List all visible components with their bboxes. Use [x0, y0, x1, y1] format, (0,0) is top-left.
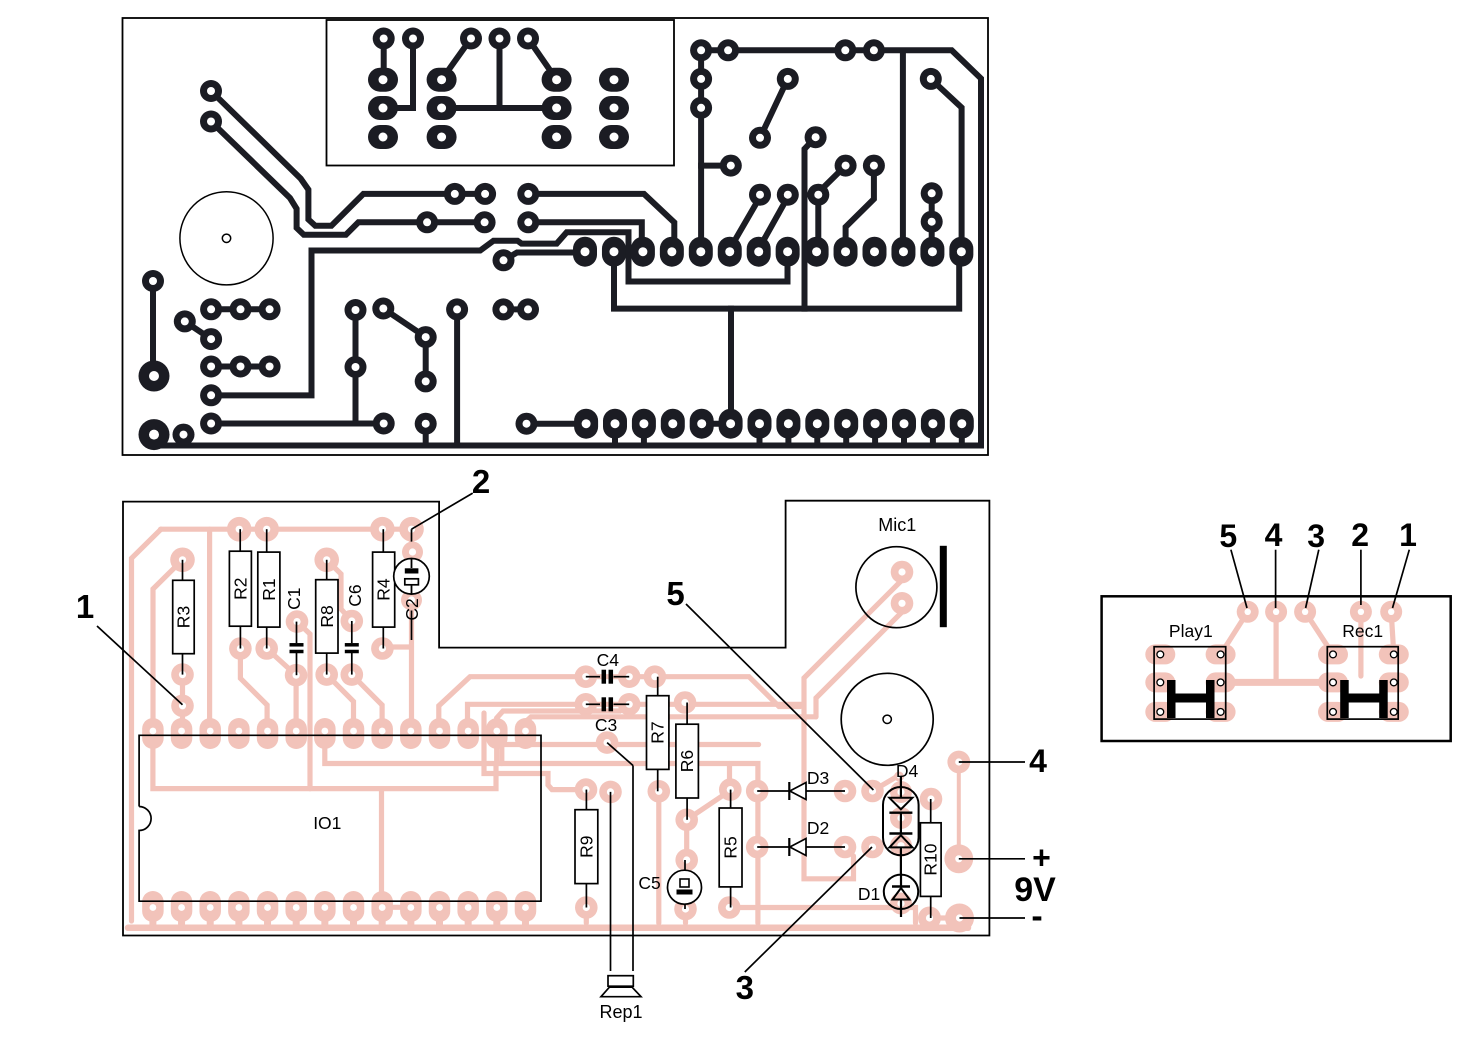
svg-text:-: -	[1031, 898, 1042, 936]
svg-text:3: 3	[736, 969, 754, 1006]
svg-text:4: 4	[1029, 743, 1047, 779]
svg-text:C6: C6	[345, 584, 365, 606]
svg-text:R7: R7	[648, 721, 668, 743]
svg-text:1: 1	[76, 588, 94, 625]
svg-text:IO1: IO1	[313, 813, 341, 833]
svg-text:R8: R8	[317, 605, 337, 627]
svg-text:D2: D2	[807, 818, 829, 838]
svg-text:R5: R5	[721, 836, 741, 858]
svg-text:1: 1	[1399, 517, 1417, 553]
svg-text:C2: C2	[402, 598, 422, 620]
svg-text:Play1: Play1	[1169, 621, 1213, 641]
svg-text:2: 2	[472, 463, 490, 500]
svg-text:C3: C3	[595, 715, 617, 735]
svg-text:2: 2	[1351, 517, 1369, 553]
svg-text:Rep1: Rep1	[599, 1002, 642, 1022]
svg-text:R1: R1	[259, 578, 279, 600]
svg-text:5: 5	[666, 575, 684, 612]
svg-text:C1: C1	[284, 588, 304, 610]
svg-text:R4: R4	[374, 578, 394, 601]
svg-text:Mic1: Mic1	[878, 515, 916, 535]
svg-text:R10: R10	[921, 843, 941, 875]
svg-text:R6: R6	[677, 750, 697, 772]
svg-text:R2: R2	[230, 578, 250, 600]
svg-text:D1: D1	[858, 884, 880, 904]
svg-text:4: 4	[1265, 517, 1283, 553]
svg-text:Rec1: Rec1	[1342, 621, 1383, 641]
svg-text:R3: R3	[173, 606, 193, 628]
svg-text:D3: D3	[807, 768, 829, 788]
svg-text:3: 3	[1307, 518, 1325, 554]
svg-text:R9: R9	[576, 835, 596, 857]
svg-text:C5: C5	[638, 873, 660, 893]
svg-text:C4: C4	[597, 650, 620, 670]
svg-text:5: 5	[1219, 518, 1237, 554]
